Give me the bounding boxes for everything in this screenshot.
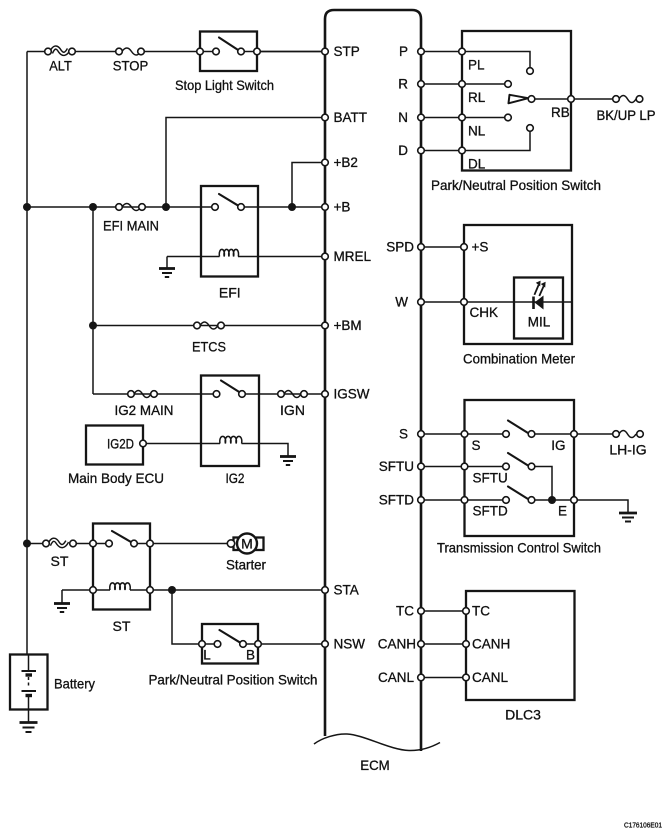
svg-text:ST: ST <box>51 553 69 569</box>
svg-text:IG: IG <box>551 438 565 453</box>
svg-text:SPD: SPD <box>386 240 414 255</box>
svg-text:L: L <box>203 648 211 663</box>
svg-text:STA: STA <box>334 583 359 598</box>
svg-text:ECM: ECM <box>360 757 390 773</box>
ground battery <box>20 723 38 733</box>
svg-text:S: S <box>472 438 481 453</box>
wire N row <box>421 117 504 119</box>
svg-text:NL: NL <box>468 124 486 139</box>
coil IG2 relay <box>220 436 242 443</box>
terminals PN top left edge <box>459 48 466 154</box>
wire R row <box>421 83 504 85</box>
svg-text:STP: STP <box>334 44 360 59</box>
svg-text:RL: RL <box>468 90 486 105</box>
wire BATT row <box>166 118 325 208</box>
transmission control switch box <box>465 400 575 536</box>
svg-text:N: N <box>398 110 408 125</box>
ground IG2 relay <box>280 457 296 466</box>
svg-text:EFI MAIN: EFI MAIN <box>103 218 159 234</box>
svg-text:IGN: IGN <box>280 402 305 418</box>
svg-text:CANH: CANH <box>378 637 416 652</box>
motor Starter <box>227 534 263 554</box>
wire W row <box>421 301 572 303</box>
contact RL <box>505 81 512 88</box>
svg-text:D: D <box>398 143 408 158</box>
fuse ETCS <box>194 322 225 329</box>
svg-text:SFTD: SFTD <box>379 493 414 508</box>
svg-text:S: S <box>399 427 408 442</box>
svg-text:M: M <box>241 536 253 552</box>
svg-text:SFTU: SFTU <box>379 459 414 474</box>
svg-text:CHK: CHK <box>470 305 499 320</box>
wire NSW row <box>172 590 325 644</box>
wire +BM row <box>93 325 325 327</box>
ECM left terminal labels <box>334 44 372 652</box>
combination meter box <box>464 225 572 344</box>
wire SFTU row <box>421 467 552 501</box>
junction dots +B row <box>23 203 31 211</box>
fuse LH-IG <box>613 431 644 438</box>
relay IG2 <box>201 376 259 467</box>
contact PL <box>527 68 534 75</box>
svg-text:BK/UP LP: BK/UP LP <box>597 107 656 123</box>
wire S row <box>421 433 612 435</box>
MIL box <box>514 278 563 339</box>
switch park/neutral bottom <box>199 624 262 664</box>
stop light switch <box>197 32 325 72</box>
contact DL <box>527 125 534 132</box>
svg-text:MIL: MIL <box>528 315 551 330</box>
svg-text:C176106E01: C176106E01 <box>624 821 662 830</box>
svg-text:EFI: EFI <box>219 285 241 301</box>
wire IG2D coil row <box>146 444 288 456</box>
wire STA coil row <box>62 589 325 591</box>
coil ST relay <box>110 583 130 590</box>
wire +B row <box>27 206 325 208</box>
fuse STOP <box>116 48 145 55</box>
svg-text:TC: TC <box>396 604 414 619</box>
contact NL <box>505 114 512 121</box>
svg-text:+B2: +B2 <box>334 155 358 170</box>
ground ST relay <box>54 590 70 612</box>
wire P row <box>421 52 530 68</box>
svg-text:+BM: +BM <box>334 318 362 333</box>
ECM right terminal labels <box>378 44 416 685</box>
svg-text:+B: +B <box>334 200 351 215</box>
svg-text:RB: RB <box>551 105 570 120</box>
wire IGSW row <box>93 393 325 395</box>
battery <box>10 655 48 723</box>
wiper RB <box>509 95 535 104</box>
wire RB row <box>535 98 612 100</box>
svg-text:PL: PL <box>468 58 485 73</box>
svg-text:W: W <box>395 295 408 310</box>
svg-text:LH-IG: LH-IG <box>609 442 646 458</box>
wire MREL coil row <box>167 256 325 258</box>
ECM left terminals <box>322 48 329 647</box>
ground EFI relay <box>159 257 175 278</box>
svg-text:P: P <box>399 44 408 59</box>
wire top rail STP row <box>27 51 325 53</box>
fusible link ALT <box>45 48 76 55</box>
ECM right terminals <box>418 48 425 681</box>
svg-text:CANL: CANL <box>378 670 415 685</box>
relay EFI <box>201 186 258 277</box>
svg-text:ALT: ALT <box>49 58 72 74</box>
svg-text:NSW: NSW <box>334 637 366 652</box>
svg-text:BATT: BATT <box>334 110 368 125</box>
svg-text:CANH: CANH <box>472 637 510 652</box>
svg-text:SFTU: SFTU <box>473 471 508 486</box>
svg-text:R: R <box>398 77 408 92</box>
fuse IG2 MAIN <box>128 391 158 398</box>
switch park/neutral top box <box>462 31 571 171</box>
fusible link ST <box>43 540 77 547</box>
wire +B2 row <box>292 163 325 208</box>
svg-text:ETCS: ETCS <box>192 339 226 355</box>
fuse IGN <box>278 391 308 398</box>
svg-text:B: B <box>246 648 255 663</box>
wire CANL row <box>421 677 466 679</box>
LED MIL <box>534 281 546 310</box>
svg-text:TC: TC <box>472 604 490 619</box>
svg-text:+S: +S <box>472 240 489 255</box>
svg-text:CANL: CANL <box>472 670 509 685</box>
wire branch rail x93 <box>92 207 94 394</box>
box Main Body ECU <box>86 426 146 465</box>
svg-text:IG2: IG2 <box>226 470 245 486</box>
svg-text:Starter: Starter <box>226 557 266 573</box>
wire D row <box>421 132 530 151</box>
svg-text:Combination Meter: Combination Meter <box>463 351 575 367</box>
svg-text:Transmission Control Switch: Transmission Control Switch <box>437 540 601 556</box>
wire ST switch row <box>27 543 231 545</box>
svg-text:Stop Light Switch: Stop Light Switch <box>175 77 274 93</box>
wire left rail <box>26 52 28 655</box>
svg-text:Park/Neutral Position Switch: Park/Neutral Position Switch <box>149 672 318 688</box>
labels PN top <box>468 58 570 172</box>
svg-text:IG2D: IG2D <box>107 437 134 452</box>
svg-text:IGSW: IGSW <box>334 387 370 402</box>
wire SFTD row <box>421 500 628 513</box>
fuse BK/UP LP <box>613 96 643 103</box>
coil EFI relay <box>219 249 238 256</box>
relay ST <box>90 524 154 610</box>
ECM box outline <box>314 10 440 751</box>
svg-text:Battery: Battery <box>54 676 95 692</box>
svg-text:SFTD: SFTD <box>473 504 508 519</box>
fuse EFI MAIN <box>116 204 146 211</box>
ground TCS <box>619 513 637 522</box>
svg-text:ST: ST <box>113 618 131 634</box>
svg-text:MREL: MREL <box>334 249 372 264</box>
svg-text:Main Body ECU: Main Body ECU <box>68 470 164 486</box>
wire SPD row <box>421 246 464 248</box>
svg-text:DLC3: DLC3 <box>505 707 541 723</box>
DLC3 box <box>466 591 575 700</box>
svg-text:STOP: STOP <box>113 58 149 74</box>
svg-text:IG2 MAIN: IG2 MAIN <box>115 402 174 418</box>
svg-text:DL: DL <box>468 157 486 172</box>
svg-text:Park/Neutral Position Switch: Park/Neutral Position Switch <box>431 177 601 193</box>
svg-text:E: E <box>558 504 567 519</box>
wire CANH row <box>421 643 466 645</box>
wire TC row <box>421 610 466 612</box>
